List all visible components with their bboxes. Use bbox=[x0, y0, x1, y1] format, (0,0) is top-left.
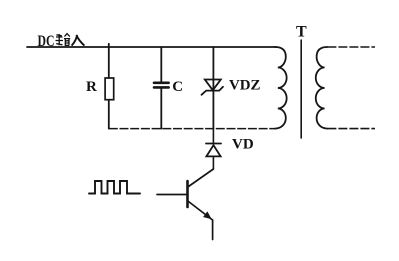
emitter arrowhead bbox=[204, 213, 210, 219]
入 glyph strokes bbox=[72, 35, 85, 46]
junction: VDZ/VD at bottom bus bbox=[212, 129, 214, 144]
wire: R branch vertical bbox=[108, 44, 110, 129]
resistor R bbox=[105, 78, 114, 100]
drive signal: square wave bbox=[89, 181, 140, 194]
diode VD bbox=[206, 144, 221, 157]
transformer T primary winding bbox=[275, 47, 287, 129]
wire: secondary top lead bbox=[327, 46, 375, 48]
svg-text:VD: VD bbox=[232, 137, 254, 153]
emitter lead down bbox=[212, 220, 214, 240]
wire: base lead bbox=[157, 194, 188, 196]
wire: top DC bus bbox=[27, 46, 276, 48]
svg-text:VDZ: VDZ bbox=[229, 78, 261, 94]
wire: bottom bus (dashed scan look) bbox=[109, 128, 276, 130]
node DC input label "DC输入" bbox=[38, 33, 85, 50]
base bar bbox=[186, 181, 189, 207]
wire: VDZ branch vertical bbox=[212, 47, 214, 129]
wire: secondary bottom lead bbox=[327, 128, 375, 130]
transistor Q (NPN) bbox=[188, 169, 214, 240]
capacitor C bbox=[154, 83, 169, 88]
zener diode VDZ bbox=[202, 80, 224, 95]
wire: C branch vertical bbox=[160, 47, 162, 129]
svg-text:R: R bbox=[86, 79, 97, 95]
collector diagonal bbox=[189, 169, 214, 187]
wire: VD to transistor collector bbox=[212, 156, 214, 169]
transformer T secondary winding bbox=[316, 47, 328, 129]
emitter diagonal bbox=[189, 202, 213, 221]
svg-text:T: T bbox=[296, 24, 307, 41]
输 glyph strokes bbox=[56, 34, 64, 45]
svg-text:C: C bbox=[172, 79, 183, 95]
transformer T core bbox=[300, 40, 302, 138]
